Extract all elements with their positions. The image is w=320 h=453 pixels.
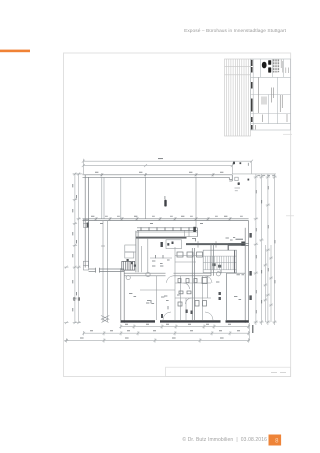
counter line upper-left of lower building bbox=[150, 257, 172, 259]
wing left wall bbox=[136, 231, 138, 273]
corridor walls bbox=[101, 221, 109, 323]
sheet footer bar bbox=[166, 367, 291, 376]
footer page number box bbox=[269, 435, 282, 446]
fold mark right middle bbox=[286, 215, 294, 217]
title block rotated grey text lines bbox=[256, 78, 288, 130]
title block rotated black labels bbox=[251, 60, 253, 130]
entrance door hatch bbox=[122, 261, 135, 270]
bottom dimension chain 1 bbox=[119, 324, 250, 328]
sheet footer bar text bbox=[271, 372, 286, 374]
Gasse south wall bbox=[83, 219, 249, 221]
title block frame bbox=[251, 59, 291, 130]
room label specks bbox=[129, 294, 241, 304]
title block address text texture bbox=[273, 59, 278, 72]
bottom dark wall bbox=[121, 320, 249, 322]
top dimension line 1 bbox=[82, 160, 253, 174]
north wing window wall bbox=[136, 228, 198, 237]
room marks left-middle bbox=[152, 255, 163, 266]
bottom dimension chain 3 bbox=[65, 338, 250, 342]
fold mark right upper bbox=[283, 133, 292, 135]
fixture box mid-left bbox=[166, 240, 182, 249]
architect logo bbox=[262, 60, 271, 72]
revision table (rotated rows) bbox=[225, 59, 251, 136]
mid dark wall right segment bbox=[186, 243, 246, 245]
door arcs bottom bbox=[163, 312, 213, 320]
dark wall line mid-left bbox=[136, 237, 187, 239]
mid double wall right part bbox=[198, 241, 249, 247]
outer wall top (Gasse north) bbox=[83, 175, 233, 181]
circle fixtures left room bbox=[126, 276, 130, 280]
left chain bold total speck bbox=[73, 297, 75, 300]
lower-left horizontal wall bbox=[89, 269, 125, 271]
small marks near top-right corner bbox=[235, 177, 241, 191]
chain-top number specks bbox=[248, 163, 275, 176]
WC fixtures bbox=[177, 252, 207, 306]
bottom dimension chain 2 bbox=[82, 331, 250, 335]
left dimension chains bbox=[64, 173, 82, 342]
orange accent bar bbox=[0, 50, 30, 53]
right big room walls bbox=[226, 221, 248, 323]
Gasse interior partitions bbox=[102, 177, 196, 228]
lower building left wall bbox=[121, 268, 124, 323]
wing south-end small rooms bbox=[125, 245, 136, 258]
sheet frame bbox=[64, 53, 291, 377]
Gasse label (dark mark) bbox=[164, 200, 166, 207]
stair arrow clump bbox=[213, 263, 216, 266]
partition x141.5 bbox=[141, 246, 143, 272]
outer wall left bbox=[83, 175, 88, 270]
ticks on top wall bbox=[100, 173, 214, 176]
left wall dark speck bbox=[87, 223, 89, 228]
fixtures left of right room bbox=[219, 292, 221, 300]
top dimension line 2 bbox=[82, 159, 234, 174]
window mullion dashes on wing wall bbox=[141, 227, 189, 231]
small marks right of wing bbox=[226, 238, 236, 241]
interior wall y273 (door gap) bbox=[124, 273, 211, 276]
partition x147.8 bbox=[147, 238, 149, 272]
interior vertical wall x211 bbox=[211, 243, 213, 276]
svg-text:Exposé – Bürohaus in Innenstad: Exposé – Bürohaus in Innenstadtlage Stut… bbox=[184, 28, 287, 34]
WC extra partitions bbox=[157, 256, 208, 321]
right dimension chains bbox=[232, 174, 276, 325]
window marks right of right wall bbox=[249, 233, 251, 300]
extra door arc mid bbox=[205, 276, 212, 283]
staircase bbox=[203, 250, 236, 273]
svg-text:© Dr. Butz Immobilien | 03.0: © Dr. Butz Immobilien | 03.08.2016 bbox=[182, 436, 267, 443]
door arrow below right wall bbox=[252, 325, 254, 333]
door marks near bottom wall bbox=[161, 310, 193, 319]
WC cluster partitions bbox=[140, 247, 211, 320]
